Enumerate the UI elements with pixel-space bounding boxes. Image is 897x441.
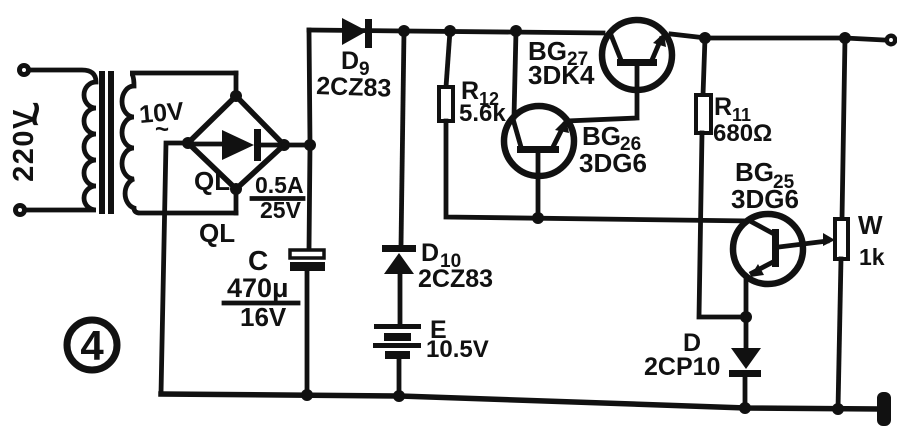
- input terminal top: [20, 66, 29, 75]
- wire secondary bottom to bridge: [234, 190, 239, 213]
- diode D 2CP10: [729, 317, 761, 408]
- svg-text:1k: 1k: [859, 244, 885, 270]
- node bridge right vertex: [278, 139, 290, 151]
- svg-text:C: C: [248, 245, 268, 276]
- wire R12 bottom to node: [446, 121, 750, 221]
- transistor BG25: [733, 214, 827, 317]
- diode D10: [382, 245, 416, 324]
- label BG25: [735, 157, 795, 193]
- wire top vertex stub: [234, 73, 239, 96]
- wire R12 top: [446, 31, 450, 87]
- svg-text:4: 4: [80, 322, 104, 369]
- transformer core: [99, 71, 114, 214]
- node BG26 collector branch: [510, 25, 522, 37]
- svg-text:R: R: [714, 93, 732, 121]
- svg-text:25V: 25V: [260, 197, 302, 223]
- node bridge bottom vertex: [230, 183, 242, 195]
- wire BG26 collector: [514, 31, 516, 117]
- bridge rectifier QL diamond: [188, 96, 284, 189]
- svg-text:0.5A: 0.5A: [255, 172, 304, 198]
- svg-text:D: D: [341, 47, 359, 75]
- label BG27: [528, 36, 588, 70]
- node BG26 base junction: [532, 212, 544, 224]
- node BG25 emitter junction: [740, 311, 752, 323]
- transformer primary winding: [26, 70, 96, 210]
- wire top rail left segment: [309, 30, 603, 33]
- node riser junction: [304, 139, 316, 151]
- node bridge top vertex: [230, 90, 242, 102]
- node D10 branch: [398, 25, 410, 37]
- diode D9: [342, 18, 372, 48]
- node R11 branch: [699, 32, 711, 44]
- svg-text:16V: 16V: [240, 302, 287, 332]
- figure number 4: [67, 320, 117, 370]
- node diode D bottom: [739, 402, 751, 414]
- svg-text:2CP10: 2CP10: [644, 353, 720, 381]
- label 470u: [224, 273, 298, 332]
- svg-text:3DG6: 3DG6: [579, 148, 647, 178]
- input terminal bottom: [16, 206, 25, 215]
- svg-text:QL: QL: [194, 166, 230, 196]
- wire R11 bottom: [699, 133, 746, 317]
- svg-text:3DK4: 3DK4: [528, 60, 595, 90]
- svg-text:W: W: [858, 210, 883, 240]
- transistor BG27: [602, 20, 672, 90]
- transistor BG26: [504, 106, 574, 218]
- svg-text:680Ω: 680Ω: [713, 120, 772, 147]
- svg-text:~: ~: [155, 116, 169, 143]
- battery E: [373, 324, 421, 396]
- resistor R11: [696, 95, 711, 133]
- svg-text:D: D: [421, 239, 439, 267]
- wire W top: [842, 38, 845, 219]
- wire R11 top: [703, 38, 705, 95]
- output terminal top right: [887, 36, 895, 44]
- svg-text:470μ: 470μ: [227, 273, 289, 303]
- svg-text:2CZ83: 2CZ83: [418, 265, 493, 293]
- transformer secondary winding: [122, 73, 236, 213]
- wire bottom rail: [161, 394, 878, 409]
- label D9: [341, 47, 370, 80]
- node battery bottom: [393, 390, 405, 402]
- node W bottom: [832, 403, 844, 415]
- svg-text:~: ~: [11, 101, 60, 127]
- label R11: [714, 93, 751, 125]
- node R12 branch: [444, 25, 456, 37]
- output terminal bottom right: [877, 392, 891, 426]
- node W branch: [839, 32, 851, 44]
- svg-text:QL: QL: [199, 218, 235, 248]
- wire top rail right segment: [671, 34, 884, 40]
- label D10: [421, 239, 461, 272]
- svg-text:2CZ83: 2CZ83: [316, 72, 392, 103]
- node capacitor bottom: [301, 389, 313, 401]
- svg-text:BG: BG: [735, 157, 774, 187]
- wire bridge right vertex to riser: [284, 143, 310, 148]
- label BG26: [582, 121, 641, 155]
- potentiometer W: [823, 219, 848, 409]
- svg-text:10.5V: 10.5V: [426, 336, 489, 363]
- resistor R12: [439, 87, 453, 121]
- node bridge left vertex: [182, 137, 194, 149]
- wire BG26 emitter to BG27 base: [566, 66, 637, 121]
- svg-text:3DG6: 3DG6: [731, 184, 799, 214]
- svg-text:BG: BG: [582, 121, 621, 151]
- capacitor C: [290, 250, 325, 395]
- wire bridge left vertex to QL down line: [161, 143, 188, 394]
- wire D10 branch: [401, 31, 404, 246]
- wire riser x310 top: [309, 30, 310, 250]
- svg-text:5.6k: 5.6k: [459, 100, 506, 127]
- label 0.5A / 25V: [252, 172, 304, 223]
- label R12: [461, 77, 499, 109]
